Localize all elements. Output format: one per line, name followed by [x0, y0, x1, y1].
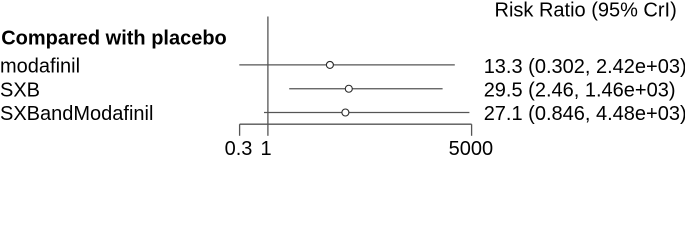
svg-text:modafinil: modafinil [0, 56, 80, 78]
svg-text:Risk Ratio (95% CrI): Risk Ratio (95% CrI) [495, 0, 677, 22]
point estimate modafinil [326, 61, 333, 68]
CI line modafinil [239, 64, 454, 66]
svg-text:27.1 (0.846, 4.48e+03): 27.1 (0.846, 4.48e+03) [484, 103, 685, 125]
axis tick 5000 [471, 124, 473, 136]
svg-text:Compared with placebo: Compared with placebo [1, 28, 227, 50]
x axis line [240, 123, 472, 125]
svg-text:SXB: SXB [0, 79, 40, 101]
svg-text:1: 1 [260, 138, 271, 157]
reference line at x=1 [267, 17, 269, 136]
point estimate SXBandModafinil [342, 109, 349, 116]
svg-text:5000: 5000 [449, 138, 494, 157]
point estimate SXB [345, 85, 352, 92]
CI line SXBandModafinil [264, 112, 469, 114]
CI line SXB [289, 88, 442, 90]
svg-text:0.3: 0.3 [225, 138, 253, 157]
axis tick 0.3 [239, 124, 241, 136]
svg-text:SXBandModafinil: SXBandModafinil [0, 103, 153, 125]
svg-text:13.3 (0.302, 2.42e+03): 13.3 (0.302, 2.42e+03) [484, 56, 685, 78]
svg-text:29.5 (2.46, 1.46e+03): 29.5 (2.46, 1.46e+03) [484, 79, 676, 101]
